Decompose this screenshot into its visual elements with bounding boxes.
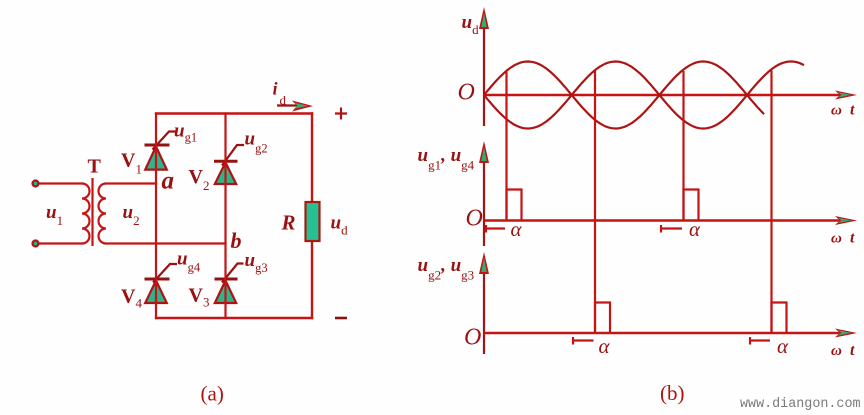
svg-text:ω: ω xyxy=(831,343,842,359)
terminal circle top xyxy=(33,181,39,187)
wire primary bottom terminal xyxy=(40,242,82,244)
chart3 x-axis arrowhead xyxy=(835,329,857,338)
chart1 x-axis arrowhead xyxy=(835,91,857,100)
svg-text:id: id xyxy=(273,79,287,108)
svg-text:O: O xyxy=(458,80,475,106)
wire left leg V1-V4 xyxy=(155,114,157,319)
svg-text:α: α xyxy=(689,217,701,241)
svg-text:O: O xyxy=(464,325,481,351)
alpha measure chart3 second xyxy=(750,337,770,345)
thyristor V1 xyxy=(145,132,177,170)
chart1 y-axis arrowhead xyxy=(479,7,489,29)
svg-text:u2: u2 xyxy=(123,202,140,228)
wire right branch upper xyxy=(311,114,313,203)
firing line 3pi+alpha xyxy=(770,71,772,334)
svg-text:V2: V2 xyxy=(189,166,210,193)
chart1 y-axis xyxy=(483,12,485,126)
svg-text:V3: V3 xyxy=(189,285,210,310)
ud sine curve positive xyxy=(484,62,764,129)
svg-text:ug2: ug2 xyxy=(245,129,268,156)
firing line 2pi+alpha xyxy=(682,71,684,221)
transformer secondary winding xyxy=(99,184,106,244)
wire right branch lower xyxy=(311,241,313,318)
transformer core xyxy=(91,178,93,246)
chart3 x-axis xyxy=(484,332,848,334)
current id arrow line xyxy=(277,104,303,106)
minus terminal label xyxy=(335,317,347,320)
chart2 x-axis arrowhead xyxy=(835,216,857,225)
svg-text:V1: V1 xyxy=(121,150,142,177)
svg-text:a: a xyxy=(162,168,175,195)
alpha measure chart2 first xyxy=(486,225,505,233)
transformer primary winding xyxy=(82,184,90,244)
wire node b to secondary bottom xyxy=(106,242,226,244)
thyristor V3 xyxy=(215,264,244,304)
wire top bus xyxy=(156,112,312,114)
resistor R load xyxy=(306,202,320,241)
svg-text:ug4: ug4 xyxy=(177,249,201,275)
chart3 y-axis arrowhead xyxy=(479,252,489,274)
svg-text:V4: V4 xyxy=(121,286,142,311)
svg-text:O: O xyxy=(466,206,483,232)
alpha measure chart3 first xyxy=(573,337,594,345)
chart2 y-axis arrowhead xyxy=(479,141,489,163)
svg-text:ug2, ug3: ug2, ug3 xyxy=(418,255,475,283)
thyristor V2 xyxy=(214,145,244,184)
gate pulse ug2 second xyxy=(772,303,787,334)
wire primary top terminal xyxy=(40,182,82,184)
firing line pi+alpha xyxy=(594,71,596,334)
svg-text:t: t xyxy=(850,102,855,119)
svg-text:b: b xyxy=(231,228,242,253)
svg-text:www.diangon.com: www.diangon.com xyxy=(740,397,861,412)
svg-text:(a): (a) xyxy=(201,382,224,406)
firing line alpha xyxy=(505,71,507,221)
gate pulse ug2 first xyxy=(595,303,610,334)
gate pulse ug1 second xyxy=(684,190,699,221)
svg-text:ω: ω xyxy=(831,231,842,247)
svg-text:(b): (b) xyxy=(660,381,685,405)
chart2 x-axis xyxy=(484,219,848,221)
svg-text:α: α xyxy=(777,334,789,358)
svg-text:ω: ω xyxy=(831,103,842,119)
chart3 y-axis xyxy=(483,258,485,354)
svg-text:ud: ud xyxy=(462,12,480,37)
plus terminal label xyxy=(335,108,347,120)
svg-text:α: α xyxy=(599,334,611,358)
circuit wires group xyxy=(40,114,312,319)
thyristor V4 xyxy=(145,264,178,303)
svg-text:u1: u1 xyxy=(46,202,63,228)
svg-text:t: t xyxy=(850,342,855,359)
alpha measure chart2 second xyxy=(661,225,682,233)
wire bottom bus xyxy=(156,317,312,319)
ud sine curve negative xyxy=(484,62,804,129)
chart2 y-axis xyxy=(483,146,485,246)
gate pulse ug1 first xyxy=(507,190,522,221)
svg-text:R: R xyxy=(281,211,296,235)
svg-text:ug1, ug4: ug1, ug4 xyxy=(418,145,475,173)
svg-text:T: T xyxy=(88,156,102,178)
svg-text:t: t xyxy=(850,230,855,247)
svg-text:α: α xyxy=(511,217,523,241)
terminal circle bottom xyxy=(33,241,39,247)
wire node a to secondary top xyxy=(106,182,156,184)
chart1 x-axis xyxy=(484,94,848,96)
svg-text:ud: ud xyxy=(331,213,349,238)
current id arrowhead xyxy=(292,101,313,112)
svg-text:ug3: ug3 xyxy=(245,250,268,275)
svg-text:ug1: ug1 xyxy=(174,121,197,145)
wire middle leg V2-V3 xyxy=(224,114,226,319)
